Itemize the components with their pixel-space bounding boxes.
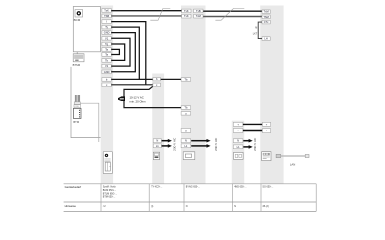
svg-text:TxK: TxK [184, 9, 189, 13]
svg-text:-: - [238, 130, 239, 133]
wire BTSM down and right to band F [71, 67, 101, 138]
pin GND (BCM pin 5) [102, 31, 111, 35]
pin N (panel B outlet) [153, 139, 161, 143]
label box CRU [74, 105, 81, 108]
LAN cable [281, 155, 306, 157]
wire b net [111, 78, 153, 80]
connector pair b [153, 77, 161, 81]
svg-text:M: M [255, 27, 257, 30]
svg-text:(i): (i) [151, 205, 153, 208]
wire - D to E [243, 130, 263, 132]
pin Ty (BCM pin 4) [102, 25, 111, 29]
svg-text:Gerätebedarf: Gerätebedarf [65, 185, 82, 189]
pin + (panel D) [233, 122, 243, 126]
svg-text:TxK: TxK [104, 8, 109, 12]
cable bundle icon [74, 95, 80, 104]
pin Tb (panel C top) [181, 78, 191, 82]
pin N (panel D outlet) [233, 139, 243, 143]
socket icon panel C [183, 152, 195, 160]
pin TxM (unit E pin 1) [262, 10, 270, 14]
svg-text:TxB: TxB [196, 9, 201, 13]
wire c net [111, 84, 153, 86]
LAN port icon (unit E) [262, 152, 271, 161]
pin V1b (BCM pin 11) [102, 64, 111, 68]
pin TSM (unit E pin 2) [262, 15, 270, 19]
pin - (unit E) [262, 129, 270, 133]
svg-text:N: N [237, 139, 239, 143]
pin b (BCM pin 13) [102, 77, 111, 81]
pin c (BCM pin 14) [102, 83, 111, 87]
BCM icon [75, 10, 83, 17]
transducer on wire (AC source symbol) [118, 96, 125, 101]
arrow 230V panel C N [191, 139, 210, 143]
pin N (panel C) [181, 129, 191, 133]
svg-text:230 V AC: 230 V AC [173, 137, 177, 151]
wire bundle to band F [80, 103, 99, 142]
LAN cable plug left [276, 154, 281, 157]
svg-text:min. 20 Ohm: min. 20 Ohm [130, 100, 147, 104]
pin Ta (BCM pin 8) [102, 47, 111, 51]
svg-text:LAN: LAN [290, 162, 295, 166]
svg-text:N: N [156, 139, 158, 143]
wire loop pin6 to pin11 [111, 38, 130, 66]
column band F (BCM connector column) [101, 6, 113, 184]
svg-text:TSM: TSM [263, 15, 268, 19]
control unit icon in band F [103, 152, 112, 174]
connector BTM box [73, 108, 81, 118]
wire loop pin8 to pin9 [111, 49, 119, 54]
svg-text:LH: LH [264, 37, 267, 41]
connector pair G right column pins [194, 9, 203, 13]
arrow 230V panel D N [243, 139, 252, 143]
wire designation slash 1 [150, 9, 170, 21]
wire TxK net (top bus 1) [111, 10, 181, 12]
svg-text:BTM 650-...: BTM 650-... [103, 196, 116, 199]
svg-text:4ND 650-...: 4ND 650-... [234, 186, 247, 189]
table frame [64, 184, 317, 212]
svg-text:V1: V1 [105, 64, 109, 68]
arrow 230V panel B L1 [162, 144, 172, 148]
svg-text:CRU: CRU [75, 106, 80, 108]
wire designation slash 2 [215, 9, 244, 21]
svg-text:Hinweise: Hinweise [65, 204, 77, 208]
connector pair G left column pins [182, 9, 191, 13]
pin + (unit E) [262, 122, 270, 126]
wire pin3 to node c [111, 22, 146, 85]
svg-text:TSB: TSB [104, 14, 109, 18]
op-unit BCM box [73, 7, 100, 52]
wire TSB net (top bus 2) [111, 15, 181, 17]
svg-text:45-(J): 45-(J) [262, 205, 268, 208]
svg-text:N: N [186, 205, 188, 208]
pin N (panel C outlet) [181, 139, 191, 143]
column band B [152, 74, 164, 184]
wire c loop with AC source [124, 86, 181, 107]
pin Tb (BCM pin 10) [102, 58, 111, 62]
column band C [181, 6, 206, 184]
pin L1 (panel C outlet) [181, 144, 191, 148]
wire bracket CTx-LH [258, 22, 262, 38]
svg-text:BTM: BTM [73, 120, 79, 124]
svg-text:GND: GND [104, 70, 110, 74]
pin LH (unit E pin 4) [262, 37, 270, 41]
socket icon panel D (double) [234, 152, 244, 159]
svg-text:TxK: TxK [184, 14, 189, 18]
module BTSM icon [73, 54, 84, 62]
pin L1 (panel B outlet) [153, 144, 161, 148]
svg-text:TY-XC9-...: TY-XC9-... [151, 186, 162, 189]
svg-text:TxM: TxM [264, 10, 269, 14]
arrow 230V panel D L1 [243, 145, 252, 149]
pin Ta2 (BCM pin 9) [102, 53, 111, 57]
column band D [232, 121, 244, 184]
pin I (BCM pin 3) [102, 20, 111, 24]
arrow 230V panel B N [162, 139, 172, 143]
wire loop pin5 to pin12 [111, 33, 135, 72]
svg-text:BTSM: BTSM [73, 63, 81, 67]
column band E [260, 6, 283, 184]
svg-text:CTx: CTx [264, 20, 269, 24]
LAN cable plug right [305, 155, 309, 158]
svg-text:230 V AC: 230 V AC [253, 137, 257, 151]
wire BCM to BTSM [76, 52, 78, 54]
svg-text:230 V AC: 230 V AC [214, 137, 218, 151]
pin Tg (BCM pin 7) [102, 42, 111, 46]
pin TxK (BCM pin 1) [102, 8, 111, 12]
pin V1 (BCM pin 6) [102, 36, 111, 40]
arrow 230V panel C L1 [191, 144, 210, 148]
svg-text:SG 650-...: SG 650-... [262, 186, 273, 189]
socket icon panel B [153, 152, 159, 159]
svg-text:V1: V1 [105, 36, 109, 40]
svg-text:BYNG 650-...: BYNG 650-... [186, 186, 201, 189]
connector pair c [153, 83, 161, 87]
pin TSB (BCM pin 2) [102, 14, 111, 18]
svg-text:BCM: BCM [74, 18, 81, 22]
svg-text:N: N [185, 139, 187, 143]
svg-text:GND: GND [104, 31, 110, 35]
wire pin4 to node b [111, 27, 139, 79]
note 10-12 V AC [126, 94, 151, 105]
pin CTx (unit E pin 3) [262, 20, 270, 24]
table cell devices col1 [103, 186, 118, 199]
pin - (panel D) [233, 129, 243, 133]
svg-text:TxM: TxM [196, 14, 201, 18]
svg-text:LKT: LKT [253, 32, 258, 35]
pin L1 (panel D outlet) [233, 145, 243, 149]
wire loop pin7 to pin10 [111, 44, 124, 60]
pin u (panel C mid 2) [181, 112, 191, 116]
wire + D to E [243, 123, 263, 125]
svg-text:N: N [234, 205, 236, 208]
pin GND2 (BCM pin 12) [102, 70, 111, 74]
svg-text:-: - [266, 130, 267, 133]
pin Ta (panel C mid) [181, 106, 191, 110]
